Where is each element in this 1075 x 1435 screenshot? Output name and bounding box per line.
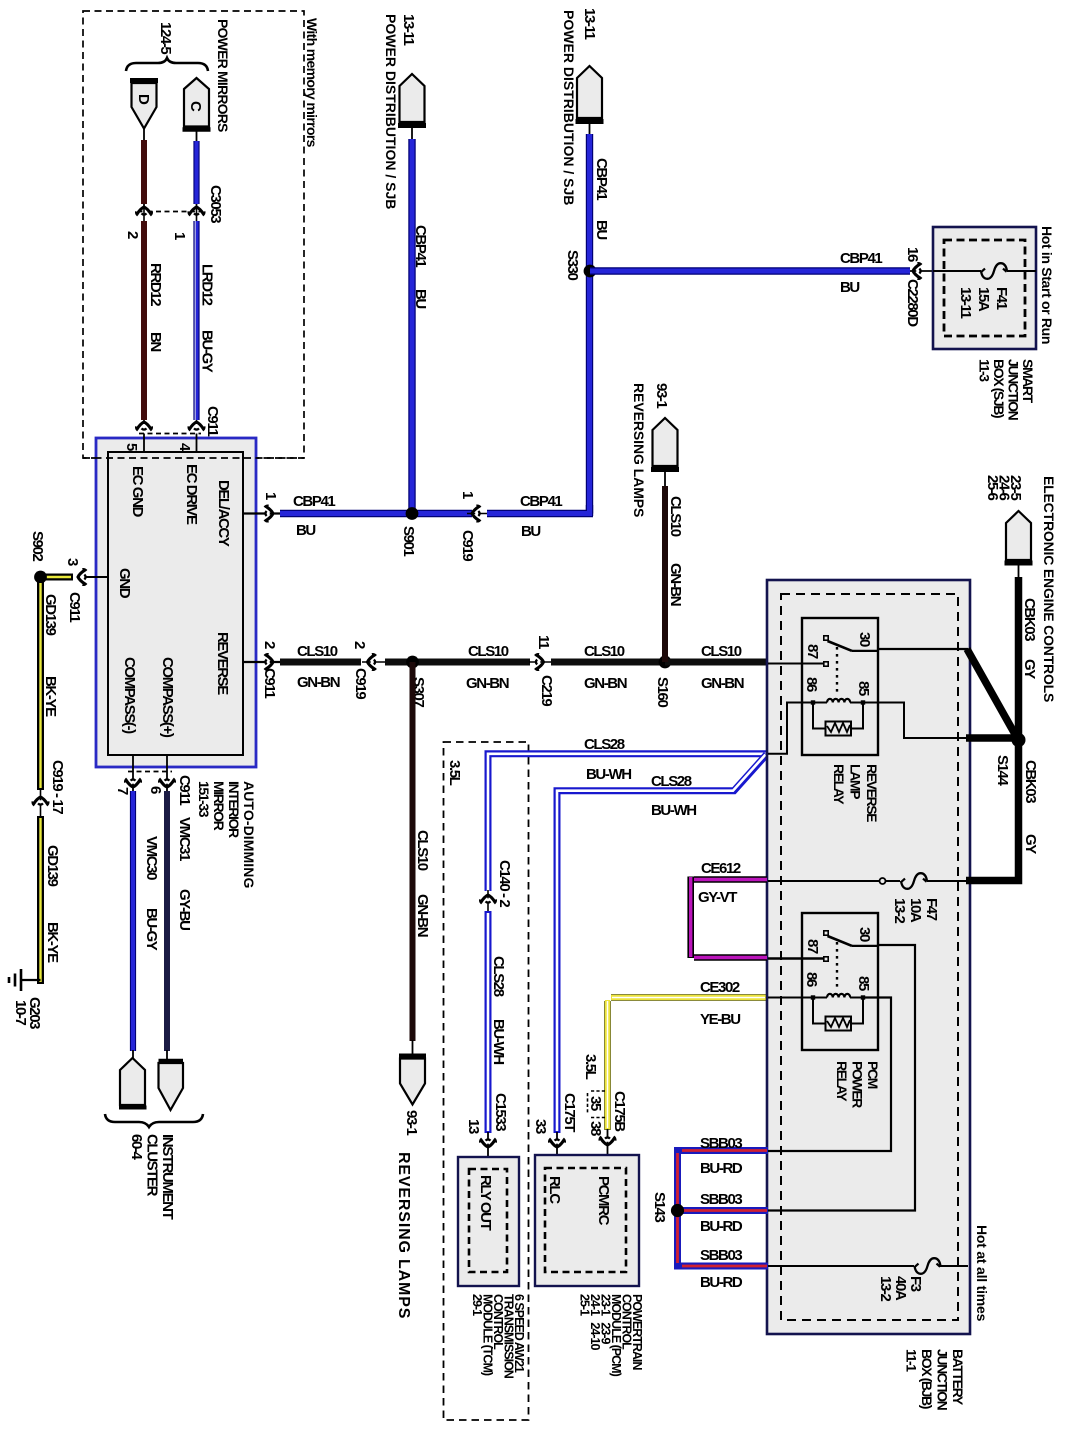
svg-text:S902: S902 [29, 531, 46, 561]
svg-text:30: 30 [856, 927, 873, 942]
wire CLS28 BU-WH lower to C1533 [488, 911, 507, 1133]
svg-text:REVERSING LAMPS: REVERSING LAMPS [395, 1152, 412, 1319]
svg-text:LAMP: LAMP [848, 764, 864, 799]
svg-text:BU: BU [593, 220, 610, 239]
svg-text:13-2: 13-2 [891, 898, 908, 923]
svg-text:93-1: 93-1 [403, 1110, 420, 1135]
svg-text:CLS10: CLS10 [468, 643, 509, 660]
inline connector C919 pin 17 [33, 760, 66, 817]
svg-text:PCMRC: PCMRC [595, 1176, 612, 1226]
svg-text:6: 6 [147, 786, 164, 794]
inline connector C3053 [124, 185, 224, 240]
wire GD139 BK-YE stub to S902 [44, 574, 73, 581]
svg-text:BU-WH: BU-WH [651, 802, 696, 819]
svg-text:GY-VT: GY-VT [698, 889, 737, 906]
svg-text:BOX (BJB): BOX (BJB) [919, 1349, 935, 1409]
fuse F3 40A 13-2 line [768, 1258, 968, 1301]
inline connector C140 pin 2 [480, 860, 513, 913]
connector D (power mirrors) [130, 81, 158, 129]
svg-text:11: 11 [535, 635, 552, 649]
label 6 SPEED AW21 TRANSMISSION CONTROL MODULE (TCM) 29-1 [470, 1294, 526, 1379]
svg-text:S901: S901 [400, 526, 417, 556]
svg-text:CBP41: CBP41 [293, 493, 335, 510]
junction S144 [994, 733, 1026, 786]
junction S902 [29, 531, 47, 583]
svg-text:C919: C919 [352, 668, 369, 699]
svg-text:RELAY: RELAY [834, 1061, 850, 1102]
wire RRD12 BN upper [143, 129, 145, 207]
label SMART JUNCTION BOX (SJB) 11-3 [977, 359, 1037, 421]
wire VMC31 GY-BU [167, 791, 193, 1051]
svg-text:S160: S160 [654, 677, 671, 707]
wire GD139 BK-YE lower vertical [41, 816, 62, 984]
reverse lamp relay pin 85 line [863, 703, 968, 739]
fuse F41 15A 13-11 [957, 263, 1010, 318]
svg-text:1: 1 [459, 491, 476, 499]
svg-text:GN-BN: GN-BN [297, 674, 340, 691]
svg-text:C911: C911 [261, 668, 278, 698]
svg-text:BU-RD: BU-RD [700, 1160, 743, 1177]
wire CBP41 BU horizontal from module [280, 493, 472, 539]
svg-text:C175T: C175T [561, 1093, 578, 1132]
svg-text:GN-BN: GN-BN [667, 563, 684, 606]
svg-text:ELECTRONIC ENGINE CONTROLS: ELECTRONIC ENGINE CONTROLS [1041, 476, 1057, 702]
pcm relay pin 30 line to SBB03 [768, 945, 915, 1211]
svg-text:RRD12: RRD12 [147, 263, 164, 306]
svg-text:DEL/ACCY: DEL/ACCY [215, 480, 232, 547]
svg-text:F41: F41 [993, 287, 1010, 310]
svg-text:C: C [187, 101, 204, 112]
wire LRD12 BU-GY upper [196, 130, 198, 207]
svg-text:C919 - 17: C919 - 17 [49, 760, 66, 814]
svg-text:BU: BU [521, 523, 540, 540]
wire CLS10 GN-BN segment 3 [551, 643, 665, 692]
svg-text:33: 33 [532, 1119, 549, 1134]
svg-text:GN-BN: GN-BN [701, 675, 744, 692]
pcm relay pin 86 line to CE302 [768, 997, 813, 999]
svg-text:LRD12: LRD12 [199, 264, 216, 306]
svg-text:JUNCTION: JUNCTION [935, 1349, 951, 1411]
wire RRD12 BN lower [144, 206, 164, 424]
off-page connector: 13-11 POWER DISTRIBUTION / SJB (right) [561, 8, 604, 205]
svg-text:CE302: CE302 [700, 979, 740, 996]
svg-text:10-7: 10-7 [12, 1000, 29, 1025]
svg-text:13: 13 [465, 1119, 482, 1134]
wire CLS10 GN-BN segment 4 to BJB [665, 643, 767, 692]
reverse lamp relay [802, 618, 878, 755]
svg-text:16: 16 [904, 247, 921, 262]
svg-text:1: 1 [262, 492, 279, 500]
svg-text:13-2: 13-2 [877, 1276, 894, 1301]
fuse F47 10A 13-2 [768, 873, 968, 923]
svg-text:BU-WH: BU-WH [586, 766, 631, 783]
svg-text:CE612: CE612 [701, 860, 741, 877]
svg-text:GN-BN: GN-BN [584, 675, 627, 692]
reverse lamp relay pin 30 line [852, 649, 968, 651]
wire CLS28 BU-WH (to PCM) [557, 755, 767, 1134]
svg-text:BU-RD: BU-RD [700, 1218, 743, 1235]
svg-text:S144: S144 [994, 755, 1011, 786]
svg-text:CLS10: CLS10 [701, 643, 742, 660]
svg-text:11-1: 11-1 [904, 1349, 920, 1372]
svg-text:86: 86 [803, 677, 820, 692]
svg-text:CLS10: CLS10 [667, 496, 684, 537]
svg-text:VMC30: VMC30 [143, 836, 160, 880]
svg-text:RELAY: RELAY [831, 764, 847, 805]
svg-text:SBB03: SBB03 [700, 1191, 742, 1208]
instrument cluster connector (right) [159, 1050, 184, 1110]
ground G203 [9, 969, 43, 1029]
svg-text:BU-GY: BU-GY [199, 330, 216, 373]
svg-text:SBB03: SBB03 [700, 1247, 742, 1264]
svg-text:CLS28: CLS28 [490, 956, 507, 997]
off-page connector: 13-11 POWER DISTRIBUTION / SJB (left) [383, 14, 426, 209]
svg-text:CLS28: CLS28 [651, 773, 692, 790]
label PCM POWER RELAY [834, 1061, 881, 1108]
svg-text:BU: BU [296, 522, 315, 539]
svg-text:COMPASS(-): COMPASS(-) [121, 657, 138, 734]
TCM RLY OUT box [458, 1157, 519, 1286]
svg-text:C219: C219 [538, 675, 555, 706]
svg-text:C175B: C175B [611, 1091, 628, 1132]
svg-text:GN-BN: GN-BN [466, 675, 509, 692]
svg-text:D: D [135, 94, 152, 105]
module: auto-dimming interior mirror box [83, 434, 304, 768]
wire SBB03 BU-RD no.1 [681, 1135, 768, 1177]
svg-text:REVERSING LAMPS: REVERSING LAMPS [631, 383, 647, 517]
svg-text:C140 - 2: C140 - 2 [496, 860, 513, 907]
svg-text:BU-GY: BU-GY [143, 908, 160, 951]
svg-text:With memory mirrors: With memory mirrors [304, 18, 320, 148]
svg-text:GN-BN: GN-BN [414, 894, 431, 937]
svg-text:151-33: 151-33 [196, 781, 212, 818]
inline connector C919 pin 2 on CLS10 [351, 641, 386, 699]
pin 38 / 35 connector C175B at PCM [582, 1054, 628, 1168]
svg-text:GND: GND [116, 568, 133, 599]
svg-text:GY: GY [1021, 659, 1038, 679]
svg-text:F47: F47 [923, 898, 940, 921]
inline connector C219 pin 11 on CLS10 [529, 635, 555, 706]
brace over power mirror connectors [126, 58, 208, 71]
svg-text:1: 1 [171, 232, 188, 240]
junction S330 [564, 250, 596, 280]
svg-text:COMPASS(+): COMPASS(+) [159, 657, 176, 738]
wire CBK03 GY upper [1019, 577, 1039, 741]
svg-text:BU: BU [412, 289, 429, 308]
svg-text:3.5L: 3.5L [582, 1054, 599, 1080]
wire SBB03 BU-RD no.3 [681, 1247, 768, 1291]
pcm relay pin 85 line to SBB03 [768, 998, 891, 1152]
wire CBP41 BU to S330 riser [487, 493, 593, 540]
wire CBP41 BU to SJB [590, 250, 910, 296]
svg-text:CLS10: CLS10 [297, 643, 338, 660]
dashed option box 3.5L (TCM) [444, 742, 529, 1420]
dashed option box: With memory mirrors [83, 11, 320, 458]
reverse lamp relay pin 86 line to CLS28 [768, 703, 813, 754]
wire LRD12 BU-GY lower [195, 206, 221, 436]
smart junction box (SJB) [933, 227, 1036, 349]
svg-text:BN: BN [147, 332, 164, 351]
connector C (power mirrors) [183, 78, 211, 130]
svg-text:GY: GY [1022, 834, 1039, 854]
junction S901 [400, 507, 418, 556]
svg-text:13-11: 13-11 [957, 287, 974, 319]
wire CLS10 GN-BN riser from S160 [665, 486, 684, 662]
svg-text:30: 30 [856, 632, 873, 647]
svg-text:93-1: 93-1 [653, 383, 670, 408]
svg-text:POWER MIRRORS: POWER MIRRORS [215, 19, 231, 132]
label REVERSE LAMP RELAY [831, 764, 880, 822]
svg-text:VMC31: VMC31 [176, 817, 193, 861]
wire CLS10 GN-BN segment 1 [280, 643, 361, 691]
battery junction box (BJB) [767, 580, 970, 1334]
inline connector C919 pin 1 on CBP41 [459, 491, 492, 561]
svg-text:BU-RD: BU-RD [700, 1274, 743, 1291]
wire CE612 GY-VT [691, 860, 767, 958]
pin 3 GND output with connector C911 [64, 558, 108, 622]
svg-text:GD139: GD139 [44, 845, 61, 887]
svg-text:13-11: 13-11 [581, 8, 598, 40]
wire GD139 BK-YE upper vertical [41, 577, 60, 790]
svg-text:85: 85 [855, 681, 872, 696]
svg-text:CLS10: CLS10 [584, 643, 625, 660]
svg-text:87: 87 [804, 939, 821, 954]
connector C911 compass pins 7 and 6 [114, 755, 193, 805]
wire SBB03 riser with junction S143 [651, 1151, 684, 1267]
svg-text:REVERSE: REVERSE [214, 632, 231, 695]
svg-text:BATTERY: BATTERY [950, 1349, 966, 1406]
off-page connector ELECTRONIC ENGINE CONTROLS [984, 475, 1057, 702]
svg-text:29-1: 29-1 [470, 1294, 484, 1316]
svg-text:CBK03: CBK03 [1021, 598, 1038, 641]
svg-text:PCM: PCM [865, 1061, 881, 1089]
svg-text:SBB03: SBB03 [700, 1135, 742, 1152]
wire CE302 YE-BU [608, 979, 768, 1130]
wire CLS10 GN-BN segment 2 [385, 643, 530, 692]
svg-text:EC GND: EC GND [129, 466, 146, 518]
svg-text:25-1: 25-1 [578, 1294, 592, 1316]
pin 33 connector C175T at PCM [532, 1093, 578, 1168]
svg-text:C3053: C3053 [207, 185, 224, 223]
svg-text:3.5L: 3.5L [446, 760, 463, 786]
pin 13 connector C1533 at TCM [465, 1093, 509, 1169]
svg-text:CBP41: CBP41 [840, 250, 882, 267]
svg-text:GY-BU: GY-BU [176, 889, 193, 930]
junction S307 [406, 656, 427, 708]
wire SBB03 BU-RD no.2 [681, 1191, 768, 1235]
svg-text:85: 85 [855, 976, 872, 991]
PCM RLC box [535, 1155, 639, 1286]
junction S160 [654, 656, 671, 708]
svg-text:CBP41: CBP41 [412, 225, 429, 267]
svg-text:EC DRIVE: EC DRIVE [183, 464, 200, 525]
svg-text:C919: C919 [459, 530, 476, 561]
svg-text:S330: S330 [564, 250, 581, 280]
brace instrument cluster [105, 1114, 203, 1127]
pcm relay pin 87 line to CE612 [768, 957, 823, 959]
svg-text:13-11: 13-11 [400, 14, 417, 46]
svg-text:35: 35 [587, 1096, 604, 1111]
svg-text:S143: S143 [651, 1192, 668, 1222]
off-page connector REVERSING LAMPS (bottom) [395, 1040, 426, 1319]
svg-text:87: 87 [804, 644, 821, 659]
svg-text:GD139: GD139 [42, 594, 59, 636]
label BATTERY JUNCTION BOX (BJB) 11-1 [904, 1349, 967, 1411]
pcm power relay [802, 913, 878, 1050]
wire CBP41 BU riser S330 [590, 134, 611, 514]
svg-text:CBP41: CBP41 [520, 493, 562, 510]
pin 2 REVERSE output with connector C911 [243, 641, 280, 698]
svg-text:RLC: RLC [546, 1176, 563, 1204]
off-page connector 93-1 REVERSING LAMPS (top) [631, 383, 679, 517]
svg-text:CLS10: CLS10 [414, 830, 431, 871]
svg-text:YE-BU: YE-BU [700, 1011, 740, 1028]
svg-text:C911: C911 [176, 775, 193, 805]
svg-text:BK-YE: BK-YE [44, 922, 61, 963]
svg-text:2: 2 [124, 231, 141, 239]
svg-text:38: 38 [587, 1121, 604, 1136]
svg-text:7: 7 [114, 787, 131, 795]
svg-text:BU: BU [840, 279, 859, 296]
svg-text:11-3: 11-3 [977, 359, 993, 382]
svg-text:MIRROR: MIRROR [211, 781, 227, 831]
svg-text:Hot in Start or Run: Hot in Start or Run [1039, 226, 1055, 344]
svg-text:10A: 10A [907, 898, 924, 923]
svg-text:CLS28: CLS28 [584, 736, 625, 753]
svg-text:124-5: 124-5 [157, 22, 174, 54]
svg-text:C1533: C1533 [492, 1093, 509, 1131]
reverse lamp relay pin 87 line to CLS10 [768, 663, 823, 665]
svg-text:3: 3 [64, 558, 81, 566]
wire CLS10 GN-BN drop from S307 [413, 662, 432, 1041]
svg-text:CBK03: CBK03 [1022, 760, 1039, 803]
inline connector C911 at mirror module [136, 422, 204, 434]
wire CLS28 BU-WH (to TCM) upper [488, 736, 768, 891]
svg-text:POWER: POWER [850, 1061, 866, 1108]
svg-text:BU-WH: BU-WH [490, 1019, 507, 1064]
pin 16 connector C2280D at SJB [904, 247, 933, 327]
svg-text:5: 5 [123, 443, 140, 451]
svg-text:INSTRUMENT: INSTRUMENT [159, 1134, 176, 1220]
wire CBK03 GY thick feeds [966, 649, 1016, 738]
svg-text:15A: 15A [975, 287, 992, 312]
svg-text:BK-YE: BK-YE [42, 676, 59, 717]
svg-text:REVERSE: REVERSE [864, 764, 880, 822]
svg-text:Hot at all times: Hot at all times [974, 1225, 990, 1322]
svg-text:CLUSTER: CLUSTER [144, 1134, 161, 1197]
svg-text:C911: C911 [204, 406, 221, 436]
instrument cluster connector (left) [119, 1050, 147, 1108]
module name label block [196, 781, 257, 889]
label POWERTRAIN CONTROL MODULE (PCM) [578, 1294, 645, 1377]
svg-text:INTERIOR: INTERIOR [226, 781, 242, 838]
label INSTRUMENT CLUSTER 60-4 [128, 1134, 176, 1220]
svg-text:C2280D: C2280D [904, 279, 921, 327]
svg-text:60-4: 60-4 [128, 1134, 145, 1160]
svg-text:CBP41: CBP41 [593, 158, 610, 200]
wire CBK03 GY lower to F47 [966, 738, 1039, 881]
svg-text:C911: C911 [66, 592, 83, 622]
svg-text:2: 2 [351, 641, 368, 649]
svg-text:86: 86 [803, 972, 820, 987]
svg-text:25-6: 25-6 [984, 475, 1001, 500]
wire CBP41 BU riser to S901 [412, 139, 429, 513]
svg-text:RLY OUT: RLY OUT [477, 1175, 494, 1231]
pin 1 DEL/ACCY output [243, 492, 280, 521]
wire VMC30 BU-GY [133, 791, 160, 1051]
svg-text:2: 2 [261, 641, 278, 649]
